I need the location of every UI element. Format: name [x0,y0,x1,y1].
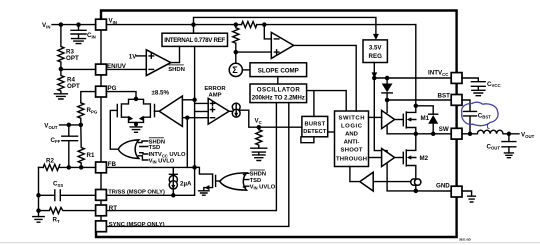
svg-text:SLOPE COMP: SLOPE COMP [258,67,299,74]
resistor RPG [78,103,98,125]
node FB-CFF [67,165,72,170]
wire VIN drain drop [415,25,417,106]
pin SYNC [96,221,165,232]
wire PG fet source [135,122,137,126]
svg-text:ERROR: ERROR [204,86,226,92]
resistor R4 [58,69,80,94]
svg-text:TR/SS (MSOP ONLY): TR/SS (MSOP ONLY) [108,189,165,195]
node rail-Rsense-right [262,22,267,27]
node VIN-R3 [59,22,64,27]
svg-text:±8.5%: ±8.5% [152,90,170,97]
resistor VC comp [256,127,262,148]
capacitor CSS [39,181,96,201]
wire INTVCC feed M2 driver [374,78,387,153]
wire window upper input [182,99,194,101]
transistor M2 [403,134,428,178]
gate OR1 fault [118,140,139,159]
svg-text:VIN UVLO: VIN UVLO [149,159,175,165]
svg-text:L: L [487,125,490,131]
svg-text:SHDN: SHDN [250,172,266,178]
label OR1 SHDN [149,138,165,146]
svg-text:OPT: OPT [66,55,79,62]
svg-text:R1: R1 [87,152,95,159]
svg-text:AND: AND [345,132,358,138]
regulator 3.5V REG [363,40,387,63]
resistor R1 [78,125,95,167]
gate OR2 fault [220,173,247,190]
wire VIN rail [106,24,415,26]
svg-text:Σ: Σ [232,65,238,75]
page footer rule [0,242,540,243]
wire GND rail [416,190,451,192]
node VIN-CIN [76,22,81,27]
pin EN/UV [96,63,127,75]
pin VIN [96,18,117,31]
node INTVCC-diode [385,76,390,81]
comparator window 8.5% [159,96,182,126]
label SHDN out [168,65,185,73]
IC boundary [96,11,457,238]
op-amp error amp [208,98,229,124]
wire window output to PG fet [154,110,159,112]
pin TR/SS [96,189,165,200]
node ref-window [192,98,197,103]
node FB err-amp [185,115,190,120]
wire PG stem [106,92,136,100]
node CBST-SW [468,132,473,137]
buffer M2 driver [382,149,395,167]
node TRSS [192,165,197,170]
summer sigma [229,63,242,76]
pin RT [96,205,118,216]
wire M2 driver input [369,157,382,159]
svg-text:THROUGH: THROUGH [336,157,367,163]
svg-text:AMP: AMP [208,92,221,98]
arrow REG output [372,72,378,78]
inductor L [477,125,503,134]
wire fault gate to left fet [110,110,118,149]
capacitor CVCC [462,78,501,90]
wire SYNC riser [106,103,288,227]
wire SW rail [387,133,451,135]
capacitor CBST [462,100,491,134]
transistor M1 [403,106,429,134]
pin FB [96,161,117,173]
diode M1 body [428,114,438,134]
wire sigma stem [235,52,237,63]
pin SW [439,126,462,139]
op-amp EN comparator [146,50,171,76]
wire M2 gate [395,157,404,159]
node VOUT-COUT [507,132,512,137]
svg-text:1V: 1V [129,54,137,61]
svg-text:SHOOT: SHOOT [341,148,363,154]
wire M2 driver gnd [387,164,416,191]
capacitor CFF [51,125,78,167]
amp gm output stage [232,103,240,117]
label 1V [129,54,147,61]
ground COUT [504,153,513,158]
node rail-Rsense-left [234,22,239,27]
wire burst to switch logic [328,131,335,133]
wire ICMP plus feed [236,51,271,53]
wire reverse input [373,181,411,183]
annotation blue circle [462,102,499,125]
capacitor COUT [487,134,516,153]
wire RT riser [106,103,276,211]
ground TRSS fet [199,191,209,195]
block SWITCH LOGIC [335,111,369,167]
diode BST charge [382,78,393,100]
ground left riser [33,217,44,223]
wire TRSS hook to discharge fet [195,167,213,174]
resistor R2 [43,158,60,171]
svg-text:2µA: 2µA [180,180,192,187]
wire FB sense line [183,117,209,119]
pin BST [438,93,463,106]
wire soft-start to err amp [195,111,209,113]
wire reverse output [350,167,360,182]
svg-text:BURST: BURST [305,122,326,128]
svg-text:SWITCH: SWITCH [339,116,365,122]
node GND rail [414,189,419,194]
wire SW external [462,133,477,135]
wire BST rail [387,99,451,101]
comparator reverse [360,172,373,191]
current source 2uA [169,167,192,195]
block OSCILLATOR [250,84,307,103]
block BURST DETECT [302,116,328,136]
node 2uA TRSS [171,193,176,198]
pin GND [436,183,462,197]
IC left edge [96,30,101,238]
wire ICMP minus feed [264,25,271,39]
op-amp ICMP current comparator [271,32,293,58]
svg-text:ANTI-: ANTI- [344,140,360,146]
wire FB [39,166,195,168]
svg-text:TSD: TSD [149,145,161,151]
pin PG [96,85,117,97]
svg-text:TSD: TSD [250,178,262,184]
node riser-CSS [36,193,41,198]
wire sigma to slope comp [242,69,250,71]
transistor TRSS discharge [204,174,220,191]
capacitor VC comp [251,148,267,155]
gate OR1 input stubs [139,141,148,160]
node BST rail [385,98,390,103]
wire M1 gate [395,119,404,121]
svg-text:SW: SW [439,126,449,133]
wire left ground riser [38,167,40,216]
sensor reverse current [411,179,421,185]
svg-text:200kHz TO 2.2MHz: 200kHz TO 2.2MHz [252,95,305,102]
svg-text:SHDN: SHDN [168,67,185,73]
wire PG to RPG [81,92,96,103]
wire INTVCC rail [374,77,451,79]
wire M1 driver input [369,116,382,118]
wire M1 driver supply [386,100,388,112]
arrow into REG [373,34,379,40]
svg-text:DETECT: DETECT [303,129,327,135]
wire REG output [373,63,375,78]
node FB-R1 [79,165,84,170]
wire VIN lead [52,24,96,26]
wire REF top feed [193,25,195,34]
wire drain to body diode [416,106,433,114]
ground GND pin [462,191,475,202]
wire M1 driver gnd to SW [386,126,388,134]
wire M2 source to gnd [415,186,417,191]
svg-text:3621 BD: 3621 BD [459,238,472,242]
wire FB riser [186,118,188,168]
svg-text:M2: M2 [420,155,429,162]
block INTERNAL REF [162,33,228,46]
node rail-REF [191,22,196,27]
ground PG fet [130,127,142,132]
wire TRSS riser bottom [106,167,194,195]
node SW-diode [431,132,436,137]
wire osc to burst [307,91,347,117]
wire burst bottom tab [301,137,314,143]
label ERROR AMP [204,86,226,98]
svg-text:LOGIC: LOGIC [341,124,363,130]
node M1 drain [414,104,419,109]
svg-text:OPT: OPT [67,83,80,90]
svg-text:BST: BST [438,93,451,100]
wire REF bottom riser [195,46,209,167]
svg-text:INTVCC UVLO: INTVCC UVLO [149,152,186,158]
gate OR2 input stubs [244,173,249,187]
svg-text:M1: M1 [421,115,430,122]
block SLOPE COMP [250,63,307,77]
svg-text:R2: R2 [46,158,54,165]
svg-text:INTERNAL 0.778V REF: INTERNAL 0.778V REF [164,37,225,44]
transistor PG pull-down pair [117,99,154,122]
wire ICMP output [294,45,357,111]
IC right edge [456,83,458,237]
node ICMP plus [234,50,239,55]
ground CVCC [472,90,485,95]
wire VIN to 3.5V REG bypass [194,17,376,36]
pin INTVCC [428,70,462,84]
svg-text:VIN UVLO: VIN UVLO [250,185,276,191]
ground VC comp [253,155,265,161]
buffer M1 driver [382,110,395,128]
node INTVCC-reg [372,76,377,81]
svg-text:GND: GND [436,183,450,190]
wire slope-osc link [277,77,279,84]
node PG source [134,122,138,126]
wire gm to VC [229,110,302,127]
node PG drain [134,97,139,102]
resistor R3 [58,25,79,69]
resistor sense horizontal [242,22,257,28]
ground R4 [54,94,67,99]
node riser-RT [36,208,41,213]
resistor RT [39,208,96,224]
node R3-R4-EN [59,67,64,72]
svg-text:3.5V: 3.5V [369,45,383,52]
wire EN/UV [61,68,146,70]
node VC [257,125,262,130]
capacitor CIN [71,25,96,40]
wire VOUT feed [60,124,81,126]
ground CIN [72,39,86,44]
node VOUT-CFF [67,123,72,128]
wire SHDN riser [171,46,180,62]
node SW-M1 [414,132,419,137]
resistor ICMP vertical [233,25,239,52]
label OR2 SHDN [250,170,266,178]
svg-text:OSCILLATOR: OSCILLATOR [257,86,301,93]
svg-text:REG: REG [368,53,382,60]
wire VOUT right [503,133,519,135]
node VOUT-RPG-R1 [79,123,84,128]
